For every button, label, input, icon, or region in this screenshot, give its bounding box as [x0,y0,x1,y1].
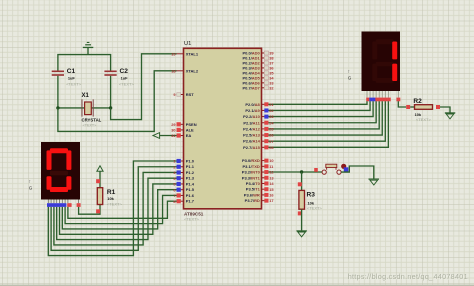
svg-text:P2.4/A12: P2.4/A12 [243,126,260,131]
svg-text:P3.2/INT0: P3.2/INT0 [242,170,261,175]
wire P3.3 to button [269,171,323,173]
svg-text:P1.0: P1.0 [186,159,195,164]
svg-text:P1.7: P1.7 [186,199,195,204]
display DS2 pin stubs [367,91,398,98]
ground right of button [369,179,380,186]
pin EA (31) [177,133,192,138]
wire P2.5 to DS2 seg5 [269,101,383,135]
svg-text:U1: U1 [184,41,191,47]
pin P3.7/RD (17) [245,198,269,203]
pin ALE (30) [177,127,195,132]
wire XTAL1 net [111,54,177,120]
svg-text:P2.7/A15: P2.7/A15 [243,145,260,150]
7-segment display DS1 (left, shows 0) [41,142,80,200]
pin P0.7/AD7 (32) [242,85,268,90]
svg-text:7: 7 [173,193,175,198]
svg-text:P1.4: P1.4 [186,181,195,186]
svg-text:P0.7/AD7: P0.7/AD7 [242,85,260,90]
wire EA terminal [160,135,177,137]
pin P3.0/RXD (10) [242,158,268,163]
wire DS1 seg0 to P1.0 [48,161,176,256]
wire DS1 seg6 to P1.6 [65,195,176,223]
wire DS1 common to R1 [79,205,100,215]
svg-text:P3.3/INT1: P3.3/INT1 [242,175,261,180]
wire DS1 seg3 to P1.3 [57,178,177,239]
svg-text:30: 30 [171,128,175,133]
svg-text:P2.0/A8: P2.0/A8 [245,102,260,107]
wire P2.2 to DS2 seg2 [269,101,374,116]
svg-text:17: 17 [269,198,273,203]
pin P2.4/A12 (25) [243,126,268,131]
svg-text:27: 27 [269,139,273,144]
wire C2-bottom down to crystal net [110,76,112,108]
wire C1-top to C2-top [58,55,111,71]
svg-text:CRYSTAL: CRYSTAL [82,118,102,123]
pin P1.6 (7) [177,193,195,198]
pin P3.1/TXD (11) [242,164,268,169]
label + G beside DS2 [348,70,352,81]
wire P2.7 to DS2 seg7 [269,101,389,147]
svg-text:X1: X1 [82,93,90,99]
ground right of R2 [445,112,456,119]
svg-text:P1.6: P1.6 [186,193,195,198]
svg-text:R1: R1 [107,189,116,196]
pin P1.3 (4) [177,176,195,181]
wire R3 to ground [301,209,303,230]
wire crystal horizontal net [58,107,111,109]
pin P1.7 (8) [177,199,195,204]
pin P2.3/A11 (24) [243,120,268,125]
resistor R2 [406,98,440,122]
wire DS1 seg7 to P1.7 [68,201,177,218]
svg-text:P1.1: P1.1 [186,164,195,169]
svg-text:<TEXT>: <TEXT> [307,205,323,210]
button state square [314,168,318,172]
wire DS2 common to R2 [398,101,406,107]
pin P1.0 (1) [177,159,195,164]
pin P1.5 (6) [177,187,195,192]
pin P3.5/T1 (15) [246,187,269,192]
pin RST (9) [177,92,195,97]
svg-text:1uF: 1uF [121,75,129,80]
pin P2.2/A10 (23) [243,114,268,119]
svg-text:P1.5: P1.5 [186,187,195,192]
node junction (R3 / button / P3.3) [300,170,303,173]
pin P0.4/AD4 (35) [242,70,268,75]
svg-text:PSEN: PSEN [186,122,197,127]
svg-text:EA: EA [186,133,192,138]
pin P0.3/AD3 (36) [242,65,268,70]
pin XTAL2 (18) [177,68,199,73]
svg-text:<TEXT>: <TEXT> [107,202,123,207]
ground below R3 [296,230,307,237]
node junction right (crystal/C2/XTAL1 net) [109,106,112,109]
pin numbers overlay [171,51,274,204]
svg-text:P3.4/T0: P3.4/T0 [246,181,261,186]
svg-text:R3: R3 [307,192,316,199]
svg-text:P2.1/A9: P2.1/A9 [245,108,260,113]
svg-text:P2.2/A10: P2.2/A10 [243,114,260,119]
pin P2.5/A13 (26) [243,133,268,138]
pin P2.0/A8 (21) [245,102,268,107]
pin P3.6/WR (16) [244,192,269,197]
pin P0.5/AD5 (34) [242,75,268,80]
7-segment display DS2 (right, shows 1) [362,32,401,92]
pin P1.2 (3) [177,170,195,175]
wire P2.1 to DS2 seg1 [269,101,371,110]
op: chip body U1 [184,48,262,209]
wire XTAL2 net [58,71,177,132]
wire P2.3 to DS2 seg3 [269,101,377,122]
pin P1.1 (2) [177,164,195,169]
svg-text:RST: RST [186,92,195,97]
svg-text:P1.2: P1.2 [186,170,195,175]
svg-text:P2.5/A13: P2.5/A13 [243,133,260,138]
wire button to ground [341,166,374,179]
wire R2 to ground [440,107,450,113]
wire C1-bottom down to crystal net [57,76,59,108]
svg-text:<TEXT>: <TEXT> [119,81,135,86]
push button SW [322,164,348,175]
wire DS1 seg2 to P1.2 [54,172,177,244]
svg-text:<TEXT>: <TEXT> [416,117,432,122]
svg-text:P1.3: P1.3 [186,176,195,181]
wire DS1 seg4 to P1.4 [60,184,177,234]
wire DS1 seg1 to P1.1 [51,167,176,251]
pin P3.3/INT1 (13) [242,175,269,180]
wire P2.4 to DS2 seg4 [269,101,380,129]
pin P3.2/INT0 (12) [242,170,269,175]
resistor R1 [96,179,122,213]
wire DS1 seg5 to P1.5 [62,190,176,229]
pin P2.1/A9 (22) [245,108,268,113]
svg-text:<TEXT>: <TEXT> [83,124,97,128]
wire P2.6 to DS2 seg6 [269,101,386,141]
pin P1.4 (5) [177,181,195,186]
pin P0.2/AD2 (37) [242,60,268,65]
pin P0.1/AD1 (38) [242,55,268,60]
svg-text:P3.1/TXD: P3.1/TXD [242,164,259,169]
svg-text:P2.3/A11: P2.3/A11 [243,120,260,125]
resistor R3 [298,182,323,215]
display DS1 pin stubs [48,200,78,204]
svg-text:G: G [29,186,33,191]
svg-text:XTAL2: XTAL2 [186,68,199,73]
display DS2 pin state squares [366,98,400,102]
display DS1 pin state squares [47,203,81,207]
pin P2.7/A15 (28) [243,145,268,150]
svg-text:<TEXT>: <TEXT> [66,81,82,86]
terminal arrow on EA [153,133,160,139]
pin P0.6/AD6 (33) [242,80,268,85]
svg-text:10: 10 [269,158,273,163]
svg-text:↑: ↑ [348,70,350,75]
svg-text:1uF: 1uF [68,75,76,80]
svg-text:G: G [348,76,352,81]
svg-text:<TEXT>: <TEXT> [184,217,200,222]
pin P2.6/A14 (27) [243,139,268,144]
svg-text:C1: C1 [67,68,76,75]
pin P3.4/T0 (14) [246,181,269,186]
capacitor C1 [52,68,82,86]
pin P0.0/AD0 (39) [242,51,268,56]
power terminal +V above R1 [97,166,103,171]
node junction left (crystal/C1/XTAL2 net) [56,106,59,109]
wire power to R1 [99,171,101,188]
svg-text:https://blog.csdn.net/qq_44078: https://blog.csdn.net/qq_44078401 [348,272,468,281]
svg-text:ALE: ALE [186,127,194,132]
svg-text:↑: ↑ [29,180,31,185]
svg-text:P2.6/A14: P2.6/A14 [243,139,260,144]
label + G beside DS1 [29,180,33,191]
svg-text:P3.7/RD: P3.7/RD [245,198,260,203]
svg-text:XTAL1: XTAL1 [186,51,199,56]
pin XTAL1 (19) [177,51,199,56]
svg-text:C2: C2 [120,68,129,75]
svg-text:R2: R2 [413,98,422,105]
ground (top, inverted) [83,42,94,55]
svg-text:P3.5/T1: P3.5/T1 [246,187,261,192]
wire P2.0 to DS2 seg0 [269,101,368,104]
svg-text:P3.0/RXD: P3.0/RXD [242,158,260,163]
pin PSEN (29) [177,122,197,127]
svg-text:10k: 10k [107,196,114,201]
capacitor C2 [104,68,134,86]
svg-text:P3.6/WR: P3.6/WR [244,192,260,197]
wire junction to R3 [301,172,303,190]
crystal X1 [82,93,102,128]
